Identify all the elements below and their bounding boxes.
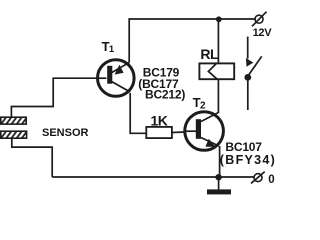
- svg-text:12V: 12V: [253, 27, 273, 39]
- node junction top rail to relay: [216, 16, 222, 22]
- label T2: [193, 95, 206, 111]
- wire relay to top rail junction: [217, 19, 219, 63]
- switch relay contact: [244, 37, 261, 110]
- wire T1 base to sensor top plate: [11, 78, 97, 117]
- wire bottom rail to 0 terminal: [52, 176, 254, 178]
- label BC179 (BC177 BC212): [138, 66, 185, 102]
- wire top rail from T1 emitter corner to 12V terminal: [129, 19, 256, 62]
- wire T1 collector down to resistor: [130, 93, 146, 133]
- svg-text:SENSOR: SENSOR: [42, 127, 89, 139]
- transistor T2: [185, 112, 224, 151]
- svg-text:1K: 1K: [151, 112, 168, 128]
- svg-text:BC212): BC212): [145, 87, 185, 101]
- sensor plate top: [1, 117, 26, 124]
- wire T2 collector up to relay: [217, 79, 219, 113]
- transistor T1: [98, 60, 135, 97]
- wire sensor bottom plate to bottom rail: [12, 138, 52, 177]
- terminal 0: [251, 172, 265, 184]
- relay RL: [199, 63, 234, 79]
- wire T2 emitter down to bottom rail: [219, 146, 221, 177]
- svg-text:0: 0: [268, 174, 274, 186]
- svg-text:1: 1: [109, 44, 115, 55]
- sensor plate bottom: [1, 131, 27, 138]
- svg-text:2: 2: [200, 100, 206, 111]
- node junction bottom rail to ground: [215, 174, 221, 180]
- svg-text:RL: RL: [200, 46, 219, 62]
- label BC107 (BFY34): [220, 140, 276, 167]
- terminal 12V: [252, 12, 267, 27]
- wire resistor to T2 base: [172, 131, 185, 134]
- svg-text:BC107: BC107: [225, 140, 262, 154]
- ground: [207, 177, 231, 194]
- label T1: [102, 39, 115, 55]
- resistor 1K: [146, 127, 172, 138]
- svg-text:(BFY34): (BFY34): [220, 153, 276, 167]
